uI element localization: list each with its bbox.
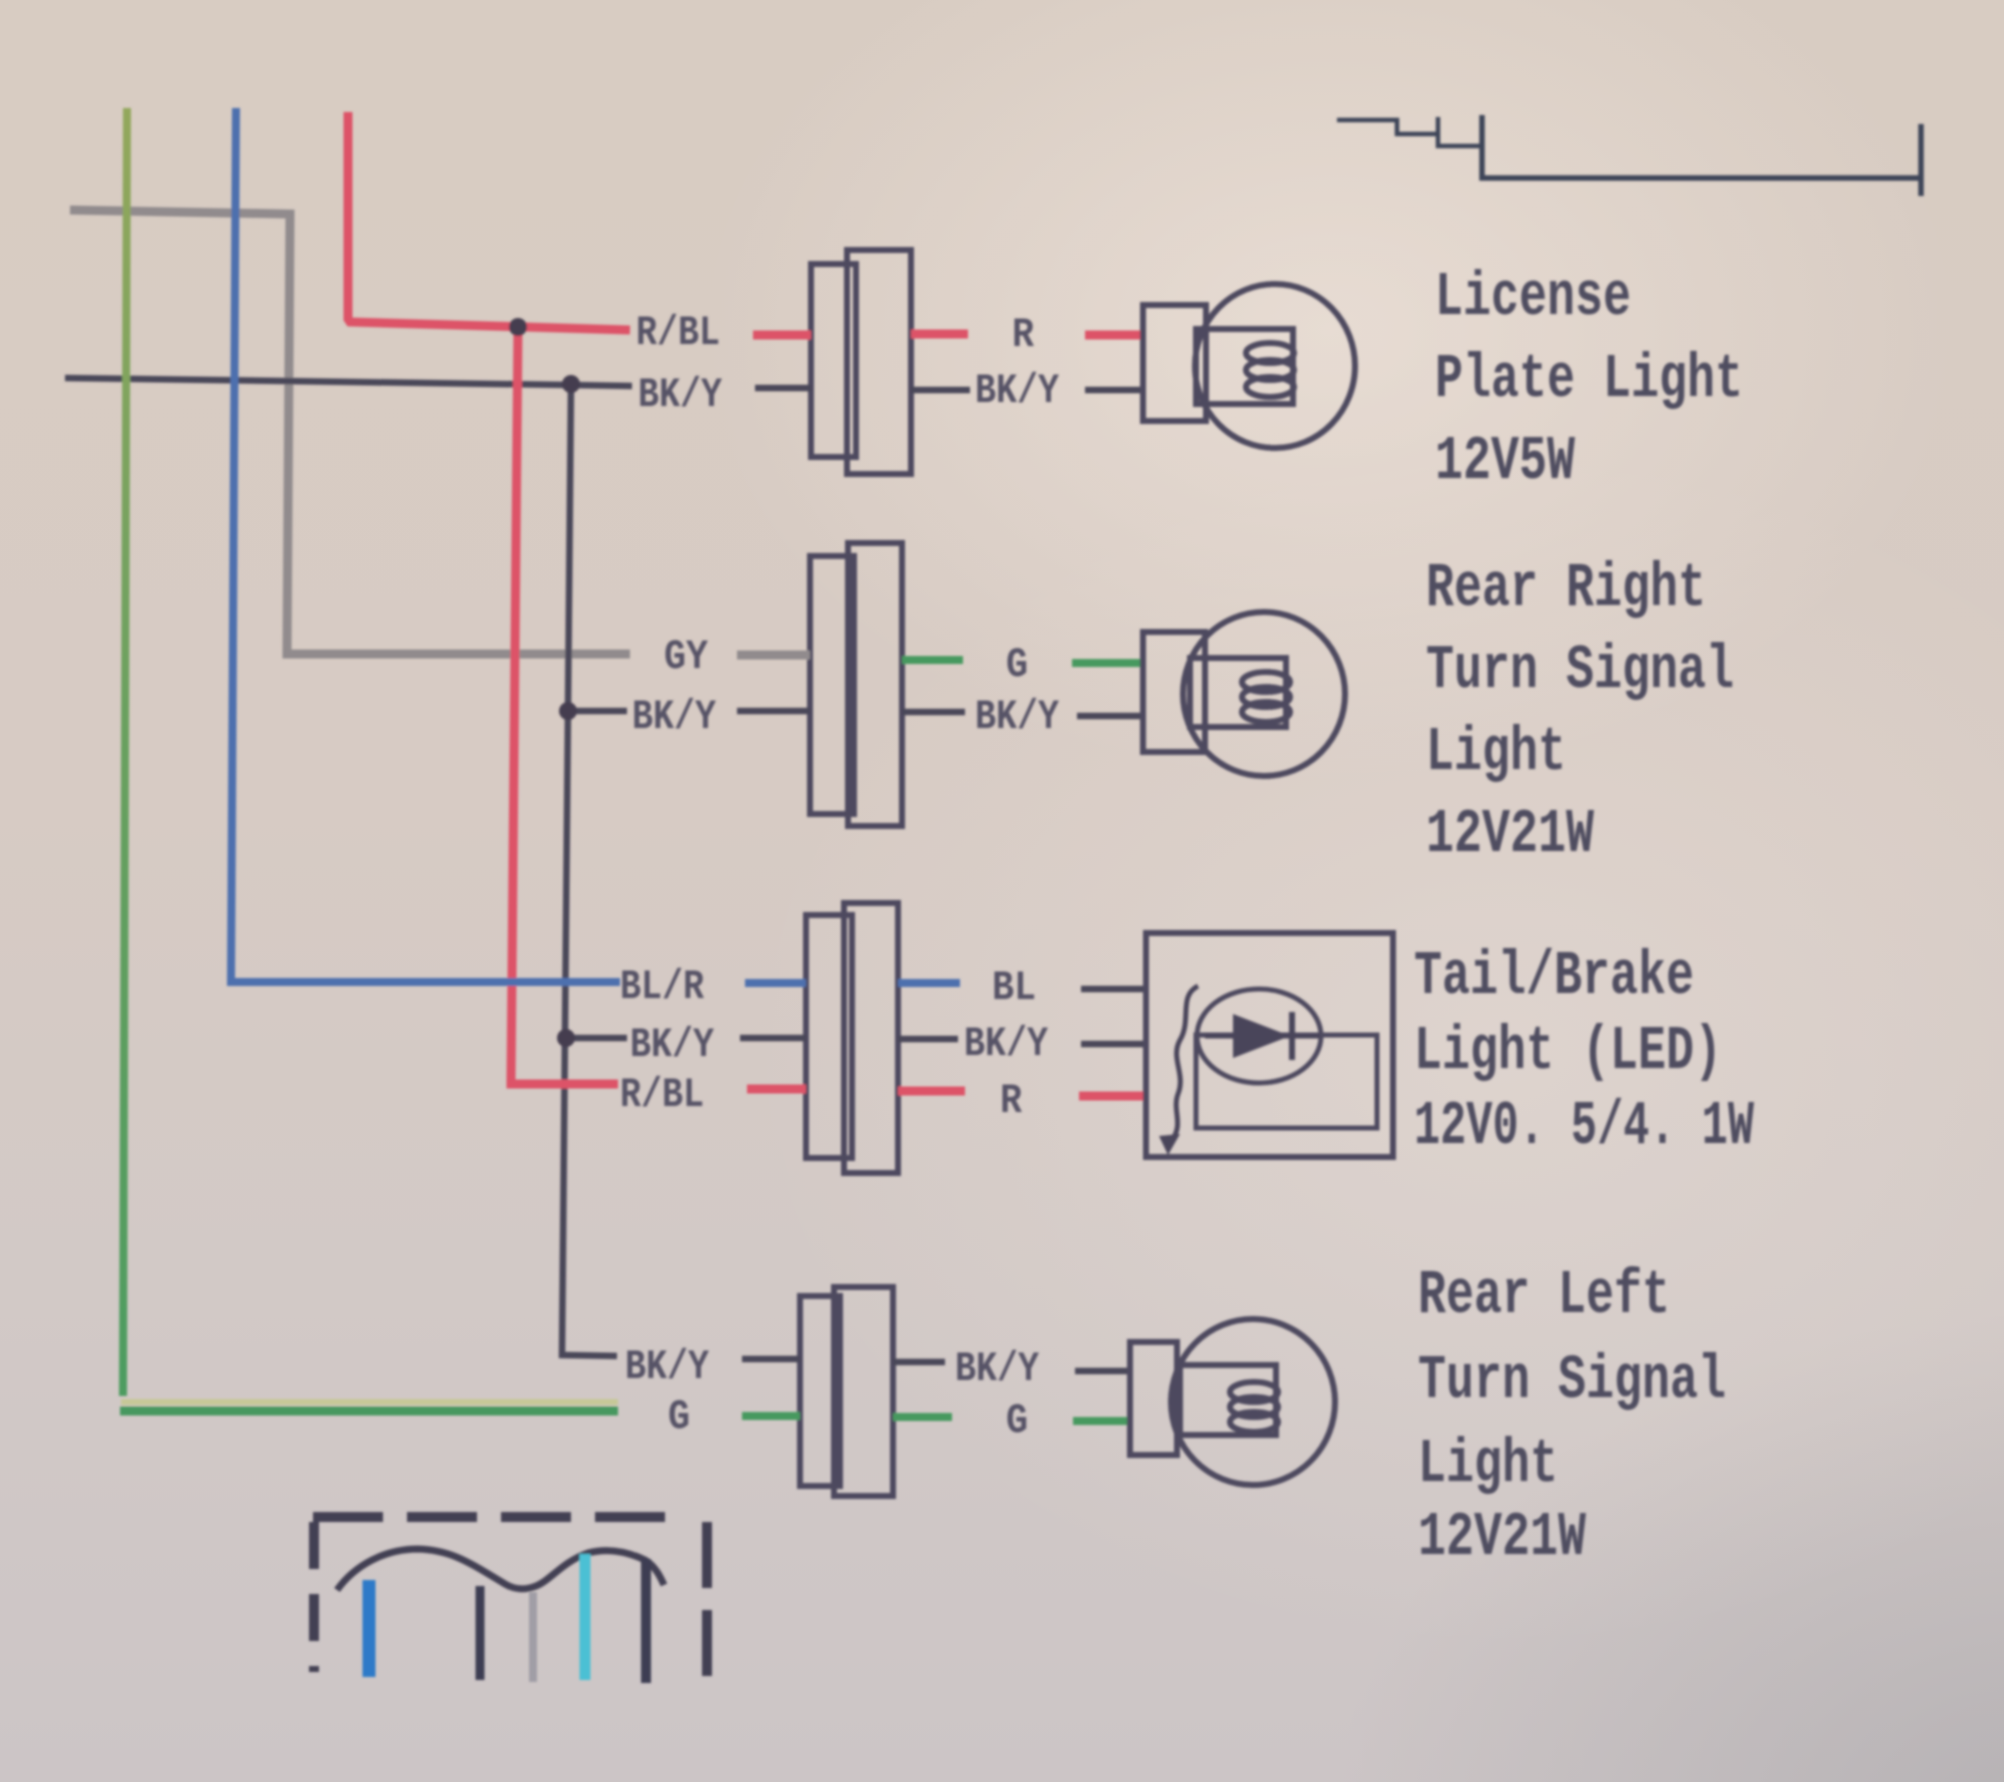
svg-text:BK/Y: BK/Y xyxy=(975,367,1060,415)
svg-text:BK/Y: BK/Y xyxy=(632,693,717,741)
svg-text:R/BL: R/BL xyxy=(636,309,720,357)
svg-text:R: R xyxy=(1000,1077,1023,1125)
svg-text:12V0. 5/4. 1W: 12V0. 5/4. 1W xyxy=(1414,1091,1755,1162)
svg-text:Turn Signal: Turn Signal xyxy=(1418,1345,1726,1416)
svg-text:Rear Left: Rear Left xyxy=(1418,1260,1670,1331)
svg-text:Turn Signal: Turn Signal xyxy=(1426,635,1734,706)
svg-text:Rear Right: Rear Right xyxy=(1426,553,1706,624)
svg-text:Light: Light xyxy=(1426,717,1566,788)
svg-text:Plate Light: Plate Light xyxy=(1435,344,1743,415)
svg-text:12V21W: 12V21W xyxy=(1426,799,1595,870)
svg-text:Light (LED): Light (LED) xyxy=(1414,1016,1722,1087)
svg-text:BK/Y: BK/Y xyxy=(630,1021,715,1069)
svg-text:Light: Light xyxy=(1418,1429,1558,1500)
svg-text:BK/Y: BK/Y xyxy=(955,1345,1040,1393)
svg-text:R: R xyxy=(1012,311,1035,359)
svg-text:12V5W: 12V5W xyxy=(1435,426,1576,497)
svg-text:BL: BL xyxy=(992,964,1036,1012)
svg-text:G: G xyxy=(1006,641,1028,689)
svg-text:G: G xyxy=(1006,1397,1028,1445)
svg-text:Tail/Brake: Tail/Brake xyxy=(1414,941,1694,1012)
svg-text:GY: GY xyxy=(664,633,709,681)
svg-text:License: License xyxy=(1435,262,1631,333)
svg-text:G: G xyxy=(668,1393,690,1441)
svg-text:BK/Y: BK/Y xyxy=(625,1343,710,1391)
svg-text:BK/Y: BK/Y xyxy=(975,693,1060,741)
svg-text:R/BL: R/BL xyxy=(620,1071,704,1119)
svg-text:BK/Y: BK/Y xyxy=(964,1020,1049,1068)
svg-text:12V21W: 12V21W xyxy=(1418,1502,1587,1573)
svg-text:BL/R: BL/R xyxy=(620,963,705,1011)
svg-text:BK/Y: BK/Y xyxy=(638,371,723,419)
